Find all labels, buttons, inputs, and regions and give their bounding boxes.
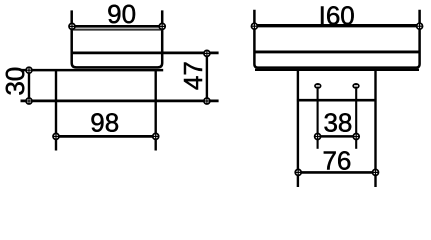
dish rim line extending to 47 dimension — [72, 52, 219, 55]
svg-text:30: 30 — [0, 67, 30, 96]
bracket right edge + extension for 76 — [374, 71, 376, 187]
circle endpoint 47 bottom — [204, 98, 210, 104]
svg-text:76: 76 — [322, 145, 351, 175]
dimension 160 line merged with bar top edge — [254, 24, 419, 27]
dish top edge (faint) — [73, 29, 162, 31]
circle endpoint 98 right — [153, 133, 159, 139]
bar outline with extensions for 160 — [254, 10, 419, 68]
circle endpoint 30 top — [26, 67, 32, 73]
bracket top line (extension for 30) — [21, 69, 164, 72]
dimension 38 line — [318, 135, 357, 138]
dimension 98 line — [56, 135, 156, 138]
dimension 47 line — [206, 53, 208, 101]
svg-text:90: 90 — [107, 0, 136, 29]
bracket bottom line (extension for 30 and 47) — [21, 100, 219, 103]
bracket left edge + extension for 76 — [297, 71, 299, 187]
svg-text:38: 38 — [323, 107, 352, 137]
circle endpoint 160 right — [417, 23, 423, 29]
dimension 30 line — [28, 70, 30, 101]
screw stem right + extension for 38 — [355, 89, 357, 149]
circle endpoint 76 left — [295, 169, 301, 175]
circle endpoint 76 right — [372, 169, 378, 175]
dish left edge + extension line for 90 — [72, 10, 163, 67]
circle endpoint 90 right — [159, 23, 165, 29]
dimension 76 line — [298, 171, 375, 174]
bracket bottom edge — [297, 99, 377, 102]
circle endpoint 98 left — [53, 133, 59, 139]
circle endpoint 90 left — [69, 23, 75, 29]
bar bottom inner line — [255, 69, 419, 71]
circle endpoint 47 top — [204, 50, 210, 56]
svg-text:98: 98 — [90, 108, 119, 138]
svg-text:47: 47 — [178, 61, 208, 90]
circle endpoint 38 left — [315, 133, 321, 139]
dimension 90 line — [72, 25, 162, 28]
circle endpoint 38 right — [353, 133, 359, 139]
svg-text:I60: I60 — [319, 1, 355, 31]
screw head right — [352, 83, 359, 89]
screw head left — [314, 83, 321, 89]
screw stem left + extension for 38 — [317, 89, 319, 149]
bar rim line — [254, 50, 419, 53]
circle endpoint 160 left — [251, 23, 257, 29]
bracket left edge + extension for 98 — [55, 70, 57, 151]
circle endpoint 30 bottom — [26, 98, 32, 104]
bracket right edge + extension for 98 — [154, 70, 156, 151]
